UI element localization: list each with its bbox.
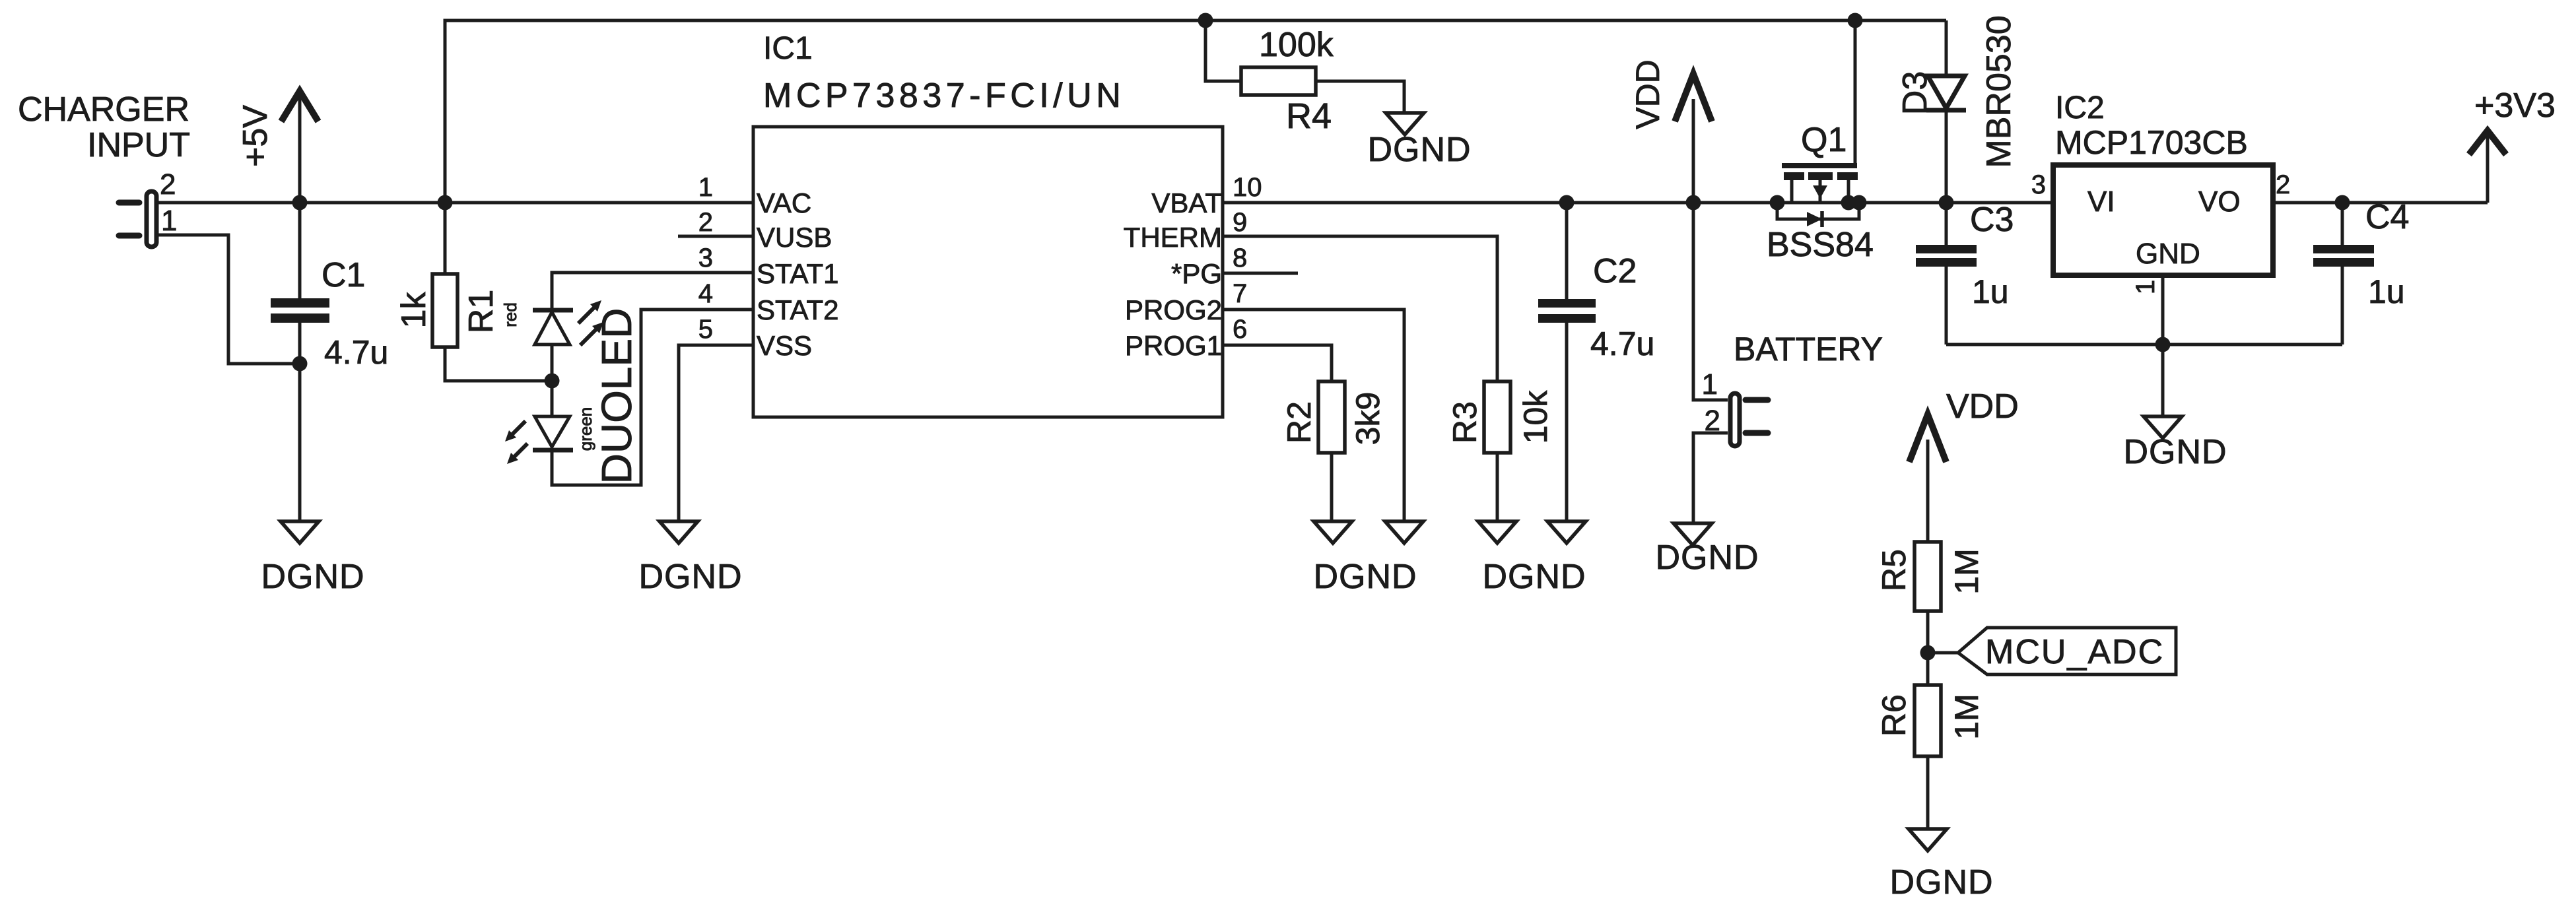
svg-text:6: 6: [1233, 315, 1247, 344]
svg-text:STAT1: STAT1: [757, 258, 838, 289]
svg-text:DGND: DGND: [1313, 558, 1417, 596]
svg-text:VAC: VAC: [757, 187, 811, 218]
svg-text:MCP73837-FCI/UN: MCP73837-FCI/UN: [763, 77, 1125, 115]
svg-text:D3: D3: [1896, 71, 1934, 115]
svg-text:C4: C4: [2365, 198, 2409, 236]
svg-text:DGND: DGND: [1655, 539, 1759, 577]
svg-text:1u: 1u: [2368, 273, 2405, 310]
svg-text:10: 10: [1233, 173, 1262, 202]
svg-text:9: 9: [1233, 208, 1247, 237]
svg-text:1: 1: [161, 205, 177, 237]
svg-text:1: 1: [2131, 280, 2160, 294]
svg-text:R2: R2: [1281, 401, 1318, 444]
svg-text:IC2: IC2: [2055, 90, 2105, 125]
svg-text:1u: 1u: [1972, 273, 2009, 310]
svg-text:1k: 1k: [395, 292, 433, 329]
svg-text:1M: 1M: [1948, 694, 1985, 739]
svg-text:VDD: VDD: [1946, 387, 2019, 426]
svg-text:2: 2: [1705, 405, 1720, 437]
svg-text:R1: R1: [462, 290, 500, 333]
svg-text:100k: 100k: [1259, 26, 1334, 64]
svg-text:8: 8: [1233, 244, 1247, 273]
svg-text:4.7u: 4.7u: [1590, 325, 1654, 362]
svg-text:VI: VI: [2087, 185, 2115, 218]
svg-text:3k9: 3k9: [1349, 392, 1386, 445]
svg-text:+3V3: +3V3: [2474, 86, 2556, 125]
svg-text:VO: VO: [2198, 185, 2241, 218]
svg-text:INPUT: INPUT: [87, 126, 190, 164]
svg-text:C3: C3: [1970, 201, 2014, 239]
svg-text:CHARGER: CHARGER: [18, 90, 189, 129]
svg-text:R6: R6: [1876, 694, 1913, 737]
svg-text:VBAT: VBAT: [1151, 187, 1222, 218]
svg-text:1M: 1M: [1948, 548, 1985, 594]
svg-text:DUOLED: DUOLED: [593, 308, 640, 484]
svg-text:2: 2: [2276, 170, 2290, 199]
svg-text:3: 3: [2031, 170, 2046, 199]
svg-text:C2: C2: [1593, 252, 1637, 290]
svg-text:DGND: DGND: [2123, 433, 2227, 471]
svg-text:R3: R3: [1446, 401, 1483, 444]
svg-text:DGND: DGND: [638, 558, 742, 596]
svg-text:MCP1703CB: MCP1703CB: [2055, 124, 2248, 161]
svg-text:PROG1: PROG1: [1125, 330, 1222, 361]
svg-text:7: 7: [1233, 279, 1247, 308]
svg-text:VSS: VSS: [757, 330, 812, 361]
svg-text:1: 1: [698, 173, 713, 202]
svg-text:IC1: IC1: [763, 31, 813, 66]
svg-text:*PG: *PG: [1171, 258, 1222, 289]
svg-text:STAT2: STAT2: [757, 294, 838, 325]
svg-text:MCU_ADC: MCU_ADC: [1985, 633, 2164, 671]
svg-text:4: 4: [698, 279, 713, 308]
svg-text:DGND: DGND: [1482, 558, 1586, 596]
svg-text:1: 1: [1702, 368, 1718, 401]
svg-text:R4: R4: [1286, 96, 1332, 136]
svg-text:3: 3: [698, 244, 713, 273]
svg-text:VDD: VDD: [1629, 59, 1666, 129]
svg-text:BSS84: BSS84: [1767, 226, 1874, 264]
svg-text:R5: R5: [1876, 549, 1913, 591]
svg-text:+5V: +5V: [236, 105, 275, 167]
svg-text:THERM: THERM: [1124, 222, 1222, 253]
svg-text:10k: 10k: [1517, 390, 1554, 444]
svg-text:2: 2: [160, 168, 176, 201]
svg-text:VUSB: VUSB: [757, 222, 832, 253]
svg-text:GND: GND: [2136, 238, 2200, 270]
svg-text:DGND: DGND: [1367, 131, 1471, 169]
svg-text:C1: C1: [322, 256, 365, 294]
svg-text:2: 2: [698, 208, 713, 237]
svg-text:red: red: [500, 302, 520, 327]
svg-text:BATTERY: BATTERY: [1734, 331, 1883, 368]
svg-text:DGND: DGND: [261, 558, 364, 596]
svg-text:PROG2: PROG2: [1125, 294, 1222, 325]
svg-text:4.7u: 4.7u: [324, 334, 388, 371]
svg-text:MBR0530: MBR0530: [1980, 15, 2018, 168]
svg-text:Q1: Q1: [1801, 121, 1847, 159]
svg-text:DGND: DGND: [1889, 863, 1993, 902]
svg-text:5: 5: [698, 315, 713, 344]
